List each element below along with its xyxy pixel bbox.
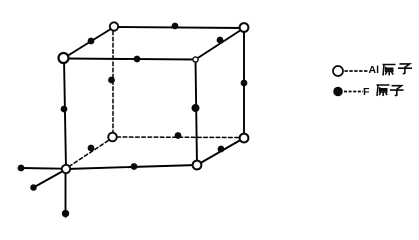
- F atom external left of corner Al: [18, 165, 25, 172]
- Al atom front-top-right corner (small): [193, 57, 198, 62]
- F atom hidden back-bottom edge midpoint: [175, 132, 182, 139]
- legend Al dashes: [345, 70, 369, 72]
- legend Al 子 character: [398, 64, 412, 74]
- Al atom front-top-left corner: [59, 53, 69, 63]
- Al atom back-bottom-left corner: [108, 133, 117, 142]
- wire right-bottom depth edge: [197, 138, 244, 165]
- wire front-left vertical edge: [64, 59, 66, 170]
- legend F 子 character: [390, 86, 404, 96]
- wire front-top edge: [64, 59, 195, 60]
- wire back-right vertical edge: [243, 28, 245, 138]
- wire front-bottom edge: [66, 165, 197, 169]
- F atom top-right depth edge midpoint: [217, 37, 224, 44]
- F atom external toward viewer from corner Al: [30, 184, 37, 191]
- wire hidden back-bottom edge (dashed): [117, 136, 240, 139]
- legend F dashes: [344, 91, 363, 93]
- F atom back-top edge midpoint: [172, 23, 179, 30]
- wire bond down-left from corner Al: [34, 171, 64, 188]
- Al atom back-bottom-right corner: [240, 134, 249, 143]
- F atom front-top edge midpoint: [134, 56, 141, 63]
- svg-text:Al: Al: [369, 64, 380, 76]
- wire bond down from corner Al: [65, 172, 67, 214]
- wire bond left from corner Al: [21, 167, 63, 170]
- Al atom back-top-left corner: [110, 22, 118, 30]
- F atom front-left vertical edge midpoint: [61, 106, 68, 113]
- F atom top-left depth edge midpoint: [88, 38, 95, 45]
- F atom hidden back-left vertical edge midpoint: [108, 77, 115, 84]
- legend F symbol: [333, 87, 343, 97]
- legend Al 原 character: [383, 65, 396, 76]
- F atom back-right vertical edge midpoint: [241, 80, 248, 87]
- wire hidden left-bottom depth edge (dashed): [69, 140, 110, 167]
- legend F 原 character: [377, 85, 390, 96]
- legend Al symbol: [333, 66, 343, 76]
- F atom front-right vertical edge midpoint: [192, 104, 200, 112]
- F atom front-bottom edge midpoint: [131, 163, 138, 170]
- wire right-top depth edge: [196, 28, 245, 60]
- Al atom front-bottom-left corner: [62, 165, 70, 173]
- wire front-right vertical edge: [196, 60, 198, 166]
- wire back-top edge: [114, 27, 244, 28]
- wire left-top depth edge: [64, 27, 114, 58]
- svg-text:F: F: [363, 86, 370, 98]
- F atom external below corner Al: [62, 210, 69, 219]
- wire hidden back-left vertical edge (dashed): [112, 31, 114, 133]
- Al atom back-top-right corner: [240, 23, 249, 32]
- F atom right-bottom depth edge midpoint: [218, 146, 225, 153]
- Al atom front-bottom-right corner: [193, 161, 202, 170]
- F atom hidden left-bottom depth edge midpoint: [88, 145, 95, 152]
